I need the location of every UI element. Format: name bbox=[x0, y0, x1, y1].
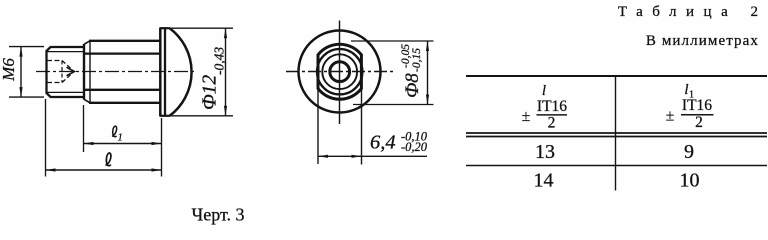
svg-text:9: 9 bbox=[684, 141, 694, 163]
svg-text:2: 2 bbox=[695, 114, 703, 131]
svg-text:±: ± bbox=[666, 108, 675, 125]
svg-text:±: ± bbox=[522, 108, 531, 125]
svg-text:l: l bbox=[542, 83, 546, 99]
svg-text:-0,15: -0,15 bbox=[411, 48, 423, 72]
svg-text:Ф8: Ф8 bbox=[402, 73, 423, 98]
svg-text:14: 14 bbox=[534, 170, 554, 192]
svg-text:-0,43: -0,43 bbox=[212, 47, 227, 75]
svg-text:IT16: IT16 bbox=[682, 97, 712, 114]
svg-text:М6: М6 bbox=[0, 58, 18, 82]
svg-text:2: 2 bbox=[548, 115, 556, 132]
svg-text:10: 10 bbox=[680, 170, 700, 192]
svg-text:l: l bbox=[684, 82, 688, 98]
svg-text:6,4: 6,4 bbox=[370, 132, 396, 154]
svg-text:Ф12: Ф12 bbox=[200, 75, 221, 110]
svg-text:Таблица 2: Таблица 2 bbox=[618, 4, 768, 20]
svg-text:IT16: IT16 bbox=[537, 98, 567, 115]
svg-text:-0,20: -0,20 bbox=[401, 140, 428, 154]
svg-text:В миллиметрах: В миллиметрах bbox=[646, 33, 759, 49]
svg-text:Черт. 3: Черт. 3 bbox=[192, 205, 245, 225]
svg-text:13: 13 bbox=[535, 141, 555, 163]
svg-text:1: 1 bbox=[118, 133, 123, 144]
